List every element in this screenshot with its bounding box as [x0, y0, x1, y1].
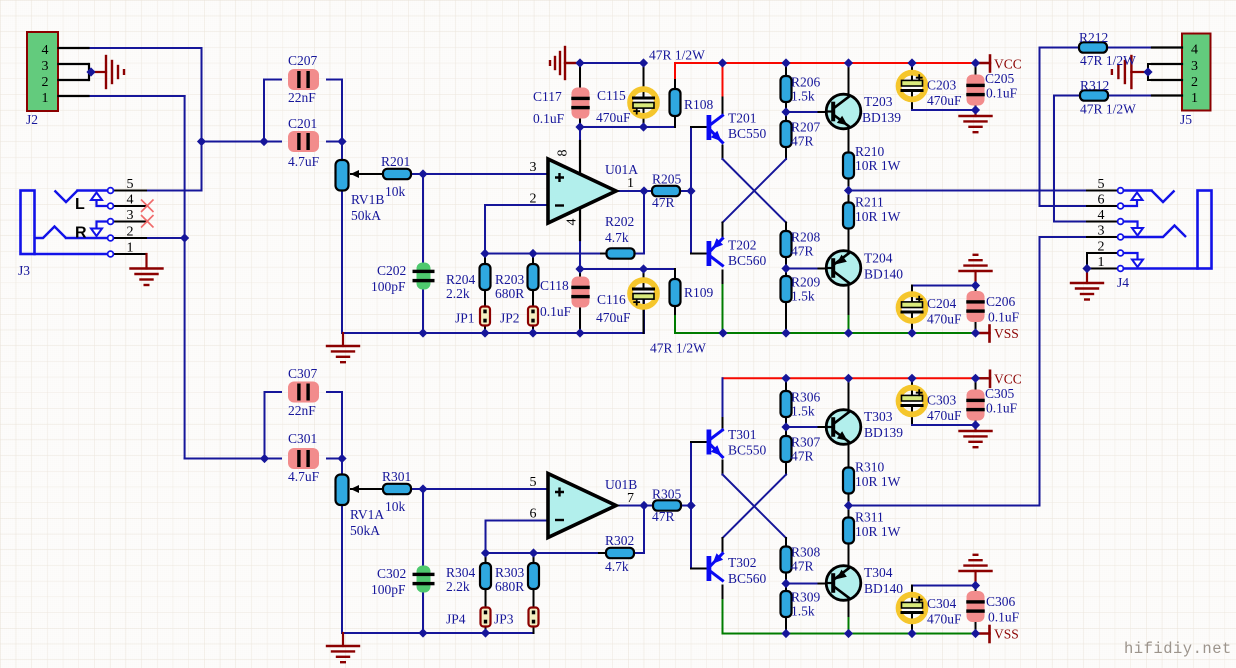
wire — [911, 378, 913, 395]
wire — [375, 488, 383, 490]
wire — [643, 63, 645, 97]
wire — [786, 426, 819, 428]
wire — [722, 600, 724, 634]
svg-text:RV1B: RV1B — [351, 192, 384, 207]
wire — [486, 521, 549, 554]
wire — [785, 572, 787, 591]
wire — [113, 205, 146, 207]
pin 8 U01A — [556, 141, 581, 173]
svg-text:8: 8 — [556, 150, 571, 157]
transistor T304 — [826, 566, 861, 601]
wire — [785, 223, 787, 232]
node junction — [686, 501, 695, 510]
wire — [633, 191, 644, 254]
potentiometer RV1B — [336, 160, 349, 191]
wire — [599, 552, 606, 554]
wire — [485, 589, 487, 608]
wire — [786, 583, 819, 585]
wire — [786, 111, 819, 113]
svg-text:C303: C303 — [927, 393, 957, 408]
svg-text:3: 3 — [530, 160, 537, 175]
wire — [911, 614, 913, 634]
resistor R304 — [480, 563, 491, 589]
wire — [327, 391, 342, 393]
wire — [265, 392, 282, 459]
wire — [690, 442, 692, 569]
node junction — [337, 137, 346, 146]
node junction — [260, 454, 269, 463]
svg-text:R204: R204 — [446, 272, 476, 287]
node junction — [575, 328, 584, 337]
svg-text:470uF: 470uF — [596, 110, 631, 125]
wire — [848, 494, 850, 518]
svg-text:C301: C301 — [288, 431, 317, 446]
wire — [723, 633, 976, 635]
wire — [674, 305, 676, 316]
svg-text:R306: R306 — [791, 390, 821, 405]
wire — [848, 378, 850, 412]
wire — [691, 568, 707, 570]
wire — [911, 286, 913, 303]
power terminal VSS — [976, 326, 990, 342]
wire — [341, 142, 343, 161]
svg-text:R202: R202 — [605, 214, 634, 229]
ground — [960, 555, 992, 586]
wire — [1087, 268, 1117, 270]
wire — [975, 63, 977, 84]
svg-text:1.5k: 1.5k — [791, 289, 815, 304]
svg-text:BD140: BD140 — [864, 581, 903, 596]
wire — [975, 586, 977, 602]
wire — [819, 111, 827, 113]
svg-text:4.7uF: 4.7uF — [288, 154, 320, 169]
svg-text:hifidiy.net: hifidiy.net — [1124, 640, 1232, 658]
wire — [722, 271, 724, 286]
svg-text:4: 4 — [1191, 43, 1198, 58]
svg-text:0.1uF: 0.1uF — [988, 310, 1020, 325]
wire — [691, 253, 707, 255]
wire — [848, 283, 850, 317]
node junction — [844, 58, 853, 67]
node junction — [971, 629, 980, 638]
node junction — [781, 107, 790, 116]
ground — [1071, 269, 1103, 300]
svg-text:R109: R109 — [684, 285, 714, 300]
wire — [785, 417, 787, 436]
node junction — [781, 264, 790, 273]
wire — [722, 98, 724, 116]
svg-text:C306: C306 — [986, 594, 1016, 609]
resistor R204 — [480, 264, 491, 290]
svg-text:R307: R307 — [791, 435, 821, 450]
node junction — [481, 548, 490, 557]
svg-text:470uF: 470uF — [927, 93, 962, 108]
wire — [351, 488, 376, 490]
resistor R310 — [843, 468, 854, 494]
svg-text:C202: C202 — [377, 263, 406, 278]
wire — [579, 269, 581, 287]
svg-text:C307: C307 — [288, 366, 318, 381]
capacitor C301 — [288, 448, 319, 469]
node junction — [971, 58, 980, 67]
capacitor C306 — [966, 591, 985, 622]
svg-text:47R: 47R — [791, 559, 814, 574]
resistor R302 — [606, 548, 634, 558]
wiper arrow RV1B — [351, 170, 360, 178]
node junction — [418, 628, 427, 637]
svg-text:BC560: BC560 — [728, 253, 767, 268]
wire — [146, 237, 185, 239]
wire — [579, 63, 581, 98]
connector J3 headphone jack — [21, 188, 114, 257]
svg-text:3: 3 — [1191, 59, 1198, 74]
wire — [723, 159, 787, 223]
wire — [533, 553, 535, 563]
wire — [1107, 47, 1153, 49]
wire — [616, 505, 653, 507]
power terminal VSS — [976, 626, 990, 642]
wire — [723, 475, 787, 539]
wire — [911, 407, 913, 425]
wire — [1132, 71, 1149, 73]
wire — [690, 127, 692, 254]
wire — [723, 475, 787, 539]
wire — [848, 179, 850, 203]
resistor R211 — [843, 203, 854, 229]
svg-text:BD139: BD139 — [862, 110, 901, 125]
resistor R203 — [528, 264, 539, 290]
wire — [486, 552, 600, 554]
resistor R208 — [781, 231, 792, 257]
wire — [484, 254, 486, 265]
ground — [327, 633, 359, 662]
svg-text:4: 4 — [1098, 208, 1105, 223]
svg-text:VCC: VCC — [994, 372, 1022, 387]
wire — [1087, 252, 1117, 254]
wire — [785, 147, 787, 159]
node junction — [639, 122, 648, 131]
wire — [327, 141, 342, 143]
svg-text:JP3: JP3 — [494, 612, 514, 627]
svg-text:1: 1 — [1098, 255, 1105, 270]
svg-text:T201: T201 — [728, 111, 757, 126]
wire — [580, 268, 675, 270]
wire — [1039, 237, 1041, 506]
wire — [1152, 95, 1182, 97]
svg-text:C204: C204 — [927, 296, 957, 311]
wire — [184, 96, 186, 459]
resistor R207 — [781, 121, 792, 147]
svg-text:1: 1 — [627, 176, 634, 191]
svg-text:BD140: BD140 — [864, 267, 903, 282]
wire — [485, 205, 548, 254]
wire — [1087, 190, 1117, 192]
wire — [422, 489, 424, 574]
svg-text:470uF: 470uF — [927, 612, 962, 627]
wire — [975, 612, 977, 634]
wire — [819, 583, 827, 585]
wire — [264, 80, 281, 142]
wire — [785, 617, 787, 634]
svg-text:T304: T304 — [864, 565, 893, 580]
svg-text:R309: R309 — [791, 590, 821, 605]
node junction — [781, 422, 790, 431]
svg-text:T303: T303 — [864, 409, 893, 424]
node junction — [418, 484, 427, 493]
wire — [722, 378, 724, 418]
potentiometer RV1A — [336, 475, 349, 506]
svg-text:4: 4 — [565, 219, 580, 226]
ground — [960, 425, 992, 447]
resistor R306 — [781, 391, 792, 417]
wire — [848, 544, 850, 569]
wire — [675, 332, 976, 334]
wire — [533, 627, 535, 634]
resistor R209 — [781, 276, 792, 302]
wire — [1054, 96, 1087, 222]
wire — [1148, 79, 1182, 81]
svg-text:1.5k: 1.5k — [791, 604, 815, 619]
wire — [264, 141, 281, 143]
node junction — [781, 328, 790, 337]
wire — [674, 316, 676, 333]
svg-text:R205: R205 — [652, 172, 682, 187]
wire — [1147, 64, 1149, 80]
svg-text:C118: C118 — [540, 278, 569, 293]
ground — [327, 333, 359, 362]
resistor R307 — [781, 436, 792, 462]
resistor R311 — [843, 518, 854, 544]
node junction — [639, 264, 648, 273]
svg-text:10R 1W: 10R 1W — [855, 158, 901, 173]
wire — [848, 442, 850, 468]
wire — [722, 461, 724, 475]
wire — [579, 127, 581, 174]
node junction — [639, 501, 648, 510]
svg-text:R304: R304 — [446, 565, 476, 580]
svg-text:47R: 47R — [791, 134, 814, 149]
jumper JP3 — [529, 608, 539, 627]
svg-text:6: 6 — [1098, 193, 1105, 208]
svg-text:T301: T301 — [728, 427, 757, 442]
wire — [1086, 253, 1088, 269]
wire — [1040, 236, 1088, 238]
transistor T303 — [826, 410, 861, 445]
wire — [722, 586, 724, 601]
resistor R301 — [383, 484, 411, 494]
wire — [1148, 63, 1182, 65]
resistor R202 — [607, 248, 635, 258]
svg-text:C203: C203 — [927, 78, 957, 93]
wire — [422, 174, 424, 271]
node junction — [971, 328, 980, 337]
wire — [532, 326, 534, 334]
node junction — [528, 328, 537, 337]
node junction — [781, 58, 790, 67]
wire — [911, 63, 913, 80]
no-connect J3 pin 3 — [141, 215, 154, 228]
resistor R205 — [652, 186, 680, 196]
wire — [849, 505, 1040, 507]
wire — [342, 332, 644, 334]
svg-text:4.7k: 4.7k — [605, 559, 629, 574]
wire — [579, 208, 581, 269]
wire — [848, 126, 850, 153]
node junction — [971, 420, 980, 429]
wire — [643, 269, 645, 288]
transistor T302 — [707, 553, 724, 581]
svg-text:L: L — [75, 196, 85, 213]
svg-text:2: 2 — [1191, 75, 1198, 90]
capacitor C204 — [899, 294, 926, 321]
svg-text:R211: R211 — [855, 195, 884, 210]
node junction — [844, 186, 853, 195]
wire — [201, 48, 203, 191]
wire — [532, 254, 534, 265]
wire — [422, 584, 424, 633]
capacitor C205 — [966, 75, 985, 106]
svg-text:10R 1W: 10R 1W — [855, 474, 901, 489]
capacitor C117 — [571, 88, 590, 119]
node junction — [907, 374, 916, 383]
pin 4 U01A — [565, 209, 581, 240]
resistor R108 — [670, 89, 681, 116]
wire — [848, 63, 850, 97]
svg-text:47R 1/2W: 47R 1/2W — [649, 48, 705, 63]
wire — [848, 316, 850, 333]
jumper JP1 — [480, 307, 490, 326]
power terminal VCC — [976, 371, 990, 387]
wire — [691, 441, 707, 443]
wire — [911, 586, 913, 603]
svg-text:U01A: U01A — [605, 162, 638, 177]
wire — [202, 141, 265, 143]
wire — [485, 627, 487, 634]
svg-text:100pF: 100pF — [371, 279, 406, 294]
wire — [579, 108, 581, 127]
wire — [680, 190, 691, 192]
wire — [113, 221, 146, 223]
svg-text:VSS: VSS — [994, 326, 1019, 341]
wire — [975, 312, 977, 333]
svg-text:BD139: BD139 — [864, 425, 903, 440]
wire — [1087, 205, 1117, 207]
wire — [848, 598, 850, 619]
svg-text:6: 6 — [530, 507, 537, 522]
node junction — [418, 169, 427, 178]
ground — [131, 254, 163, 285]
svg-text:100pF: 100pF — [371, 582, 406, 597]
wire — [722, 538, 724, 553]
svg-text:VCC: VCC — [994, 57, 1022, 72]
wire — [975, 96, 977, 110]
capacitor C118 — [571, 277, 590, 308]
wire — [485, 253, 601, 255]
wire — [341, 392, 343, 459]
wire — [1087, 236, 1117, 238]
wire — [675, 62, 987, 64]
svg-text:T204: T204 — [864, 251, 893, 266]
svg-text:R206: R206 — [791, 75, 821, 90]
wire — [1040, 48, 1088, 207]
wire — [601, 253, 607, 255]
node junction — [686, 186, 695, 195]
wire — [912, 109, 976, 111]
wire — [485, 553, 487, 563]
svg-text:J5: J5 — [1180, 112, 1192, 127]
svg-text:R301: R301 — [382, 469, 411, 484]
svg-text:4: 4 — [42, 43, 49, 58]
wire — [633, 506, 644, 554]
wire — [785, 538, 787, 547]
wire — [580, 126, 675, 128]
svg-text:JP2: JP2 — [500, 311, 520, 326]
node junction — [844, 629, 853, 638]
svg-text:R305: R305 — [652, 487, 682, 502]
capacitor C116 — [630, 280, 657, 307]
node junction — [718, 328, 727, 337]
svg-text:J3: J3 — [18, 263, 30, 278]
ground — [960, 255, 992, 286]
wire — [674, 63, 676, 80]
node junction — [1082, 264, 1091, 273]
svg-text:2.2k: 2.2k — [446, 579, 470, 594]
svg-text:10R 1W: 10R 1W — [855, 524, 901, 539]
svg-text:47R: 47R — [791, 244, 814, 259]
connector J4 headphone jack — [1118, 188, 1212, 272]
svg-text:C304: C304 — [927, 596, 957, 611]
svg-text:U01B: U01B — [605, 477, 637, 492]
wire — [533, 589, 535, 608]
svg-text:5: 5 — [127, 177, 134, 192]
node junction — [197, 137, 206, 146]
resistor R109 — [670, 279, 681, 306]
wire — [327, 79, 342, 81]
wire — [722, 223, 724, 239]
node junction — [529, 548, 538, 557]
svg-text:50kA: 50kA — [351, 208, 381, 223]
svg-text:680R: 680R — [495, 579, 524, 594]
op-amp U01A — [548, 159, 616, 223]
node junction — [907, 58, 916, 67]
resistor R206 — [781, 76, 792, 102]
wire — [643, 299, 645, 333]
wire — [723, 377, 988, 379]
resistor R201 — [383, 169, 411, 179]
resistor R303 — [528, 563, 539, 589]
node junction — [844, 374, 853, 383]
svg-text:J4: J4 — [1117, 275, 1129, 290]
svg-text:50kA: 50kA — [350, 523, 380, 538]
svg-text:47R: 47R — [791, 449, 814, 464]
wire — [722, 63, 724, 98]
svg-text:C201: C201 — [288, 116, 317, 131]
svg-text:R210: R210 — [855, 144, 885, 159]
svg-text:RV1A: RV1A — [350, 507, 384, 522]
wire — [722, 146, 724, 160]
node junction — [844, 328, 853, 337]
node junction — [480, 249, 489, 258]
svg-text:2: 2 — [42, 75, 49, 90]
wire — [341, 459, 343, 475]
ground — [550, 47, 580, 79]
node J2 ground — [86, 67, 95, 76]
resistor R305 — [653, 500, 681, 510]
node junction — [481, 628, 490, 637]
wire — [113, 237, 146, 239]
node junction — [907, 629, 916, 638]
wire — [691, 126, 707, 128]
